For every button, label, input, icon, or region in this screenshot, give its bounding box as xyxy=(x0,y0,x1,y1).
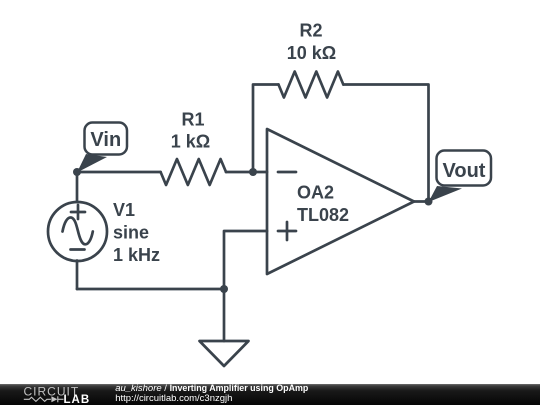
svg-text:10 kΩ: 10 kΩ xyxy=(287,43,336,63)
svg-text:Vout: Vout xyxy=(443,160,486,182)
svg-text:Vin: Vin xyxy=(90,129,121,151)
svg-text:OA2: OA2 xyxy=(297,182,334,202)
svg-text:sine: sine xyxy=(113,223,149,243)
svg-text:1 kΩ: 1 kΩ xyxy=(171,132,210,152)
svg-text:V1: V1 xyxy=(113,200,135,220)
svg-text:http://circuitlab.com/c3nzgjh: http://circuitlab.com/c3nzgjh xyxy=(115,393,232,404)
svg-text:R2: R2 xyxy=(299,20,322,40)
svg-text:R1: R1 xyxy=(181,110,204,130)
svg-text:TL082: TL082 xyxy=(297,205,349,225)
svg-text:1 kHz: 1 kHz xyxy=(113,245,160,265)
svg-text:LAB: LAB xyxy=(64,394,91,405)
